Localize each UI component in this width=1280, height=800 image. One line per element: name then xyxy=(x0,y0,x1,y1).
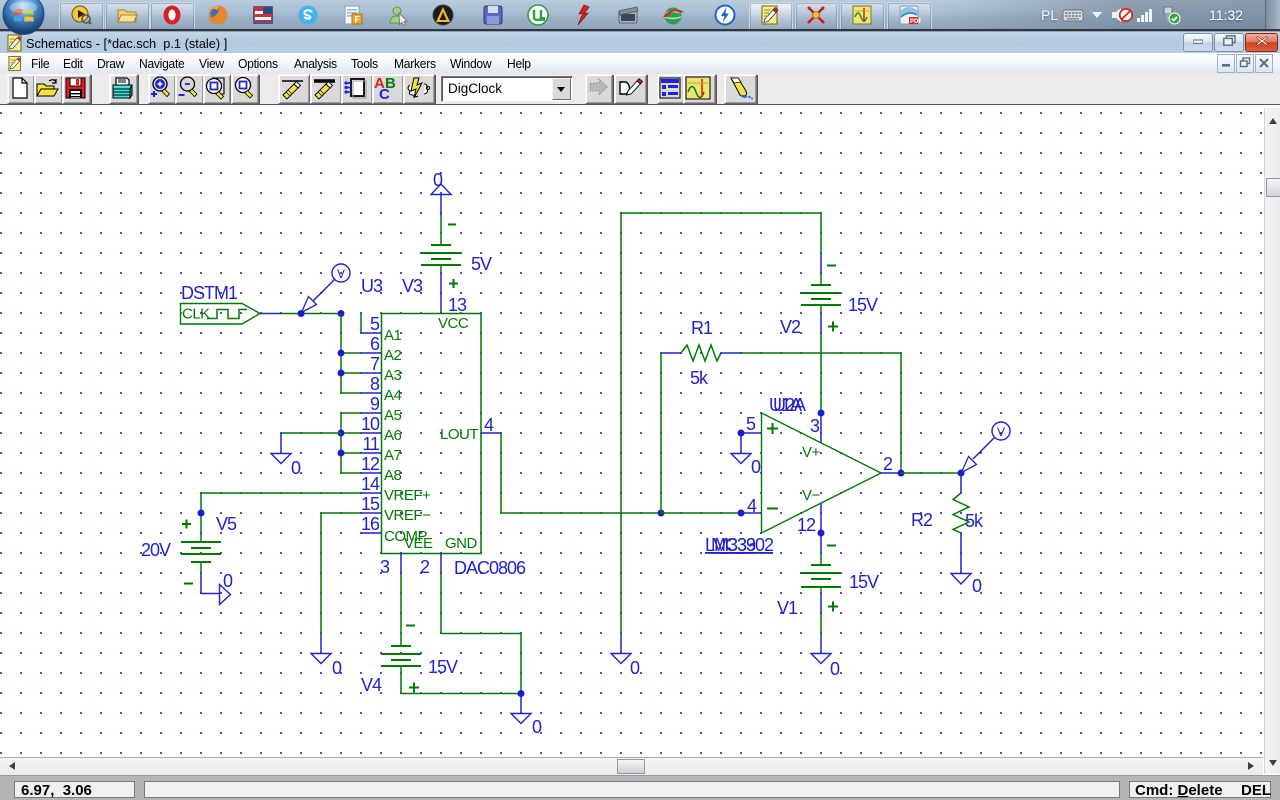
U3 pin 4 stub (LOUT) xyxy=(481,432,501,434)
svg-text:5: 5 xyxy=(370,314,380,334)
svg-text:11: 11 xyxy=(362,434,380,454)
svg-text:A7: A7 xyxy=(384,447,402,464)
junction node plus input xyxy=(738,430,745,437)
ground 0 (V3 minus, rotated 180) xyxy=(431,170,451,216)
svg-text:A6: A6 xyxy=(384,427,402,444)
voltage marker on output xyxy=(962,422,1011,473)
U2A minus input stub (4) xyxy=(741,512,761,514)
wire V2 plus to op-amp V+ xyxy=(820,313,822,333)
svg-text:8: 8 xyxy=(370,374,380,394)
ground 0 (V5 minus, rotated) xyxy=(201,571,233,605)
svg-text:F: F xyxy=(355,15,361,25)
wire to V+ node xyxy=(820,333,822,413)
svg-text:GND: GND xyxy=(445,535,478,552)
U3 pin 6 stub (A2) xyxy=(361,352,381,354)
wire clock net xyxy=(281,313,341,315)
ground 0 (VREF-) xyxy=(311,634,342,678)
svg-text:14: 14 xyxy=(361,474,380,494)
voltage source V4 battery xyxy=(381,626,421,693)
junction node A7 xyxy=(338,450,345,457)
wire GND pin to junction xyxy=(441,573,521,694)
svg-text:0: 0 xyxy=(291,458,301,478)
svg-text:0: 0 xyxy=(332,658,342,678)
U2A V+ pin stub (3) xyxy=(820,413,822,443)
U2A plus input stub (5) xyxy=(741,432,761,434)
svg-text:V5: V5 xyxy=(216,514,237,534)
svg-text:10: 10 xyxy=(361,414,380,434)
wire V2 top loop xyxy=(621,213,821,634)
svg-text:V: V xyxy=(337,267,345,281)
svg-text:4: 4 xyxy=(747,496,757,516)
svg-text:20V: 20V xyxy=(141,540,171,560)
svg-text:V1: V1 xyxy=(777,598,798,618)
svg-text:0: 0 xyxy=(751,457,761,477)
svg-text:VREF−: VREF− xyxy=(384,507,431,524)
svg-text:R1: R1 xyxy=(691,318,713,338)
junction node A6 xyxy=(338,430,345,437)
svg-text:U2A: U2A xyxy=(773,395,806,415)
ground 0 (V4/GND) xyxy=(511,694,542,738)
junction node V+ xyxy=(818,410,825,417)
IC U3 DAC0806 body xyxy=(382,314,482,554)
svg-text:LOUT: LOUT xyxy=(440,426,478,443)
U3 pin 15 stub (VREF-) xyxy=(361,512,381,514)
svg-text:15: 15 xyxy=(361,494,380,514)
svg-text:V3: V3 xyxy=(402,276,423,296)
wire VREF- net xyxy=(321,513,361,634)
svg-text:V−: V− xyxy=(802,487,821,504)
svg-text:VCC: VCC xyxy=(438,315,469,332)
junction node V5 plus xyxy=(198,510,205,517)
junction node V4/GND xyxy=(518,690,525,697)
wire V4 plus to junction xyxy=(401,666,521,694)
wire VCC to V3 xyxy=(440,273,442,293)
junction node V- xyxy=(818,530,825,537)
wire R1 left to inverting node xyxy=(660,353,662,513)
svg-text:C: C xyxy=(379,86,390,101)
svg-text:V4: V4 xyxy=(361,675,382,695)
voltage source V2 battery xyxy=(801,266,841,332)
ground 0 (plus input) xyxy=(731,433,761,477)
svg-text:A5: A5 xyxy=(384,407,402,424)
svg-text:A2: A2 xyxy=(384,347,402,364)
svg-text:V+: V+ xyxy=(802,444,821,461)
svg-text:0: 0 xyxy=(972,576,982,596)
voltage source V1 battery xyxy=(801,546,841,612)
svg-text:A1: A1 xyxy=(384,327,402,344)
svg-text:MC3302: MC3302 xyxy=(711,535,774,555)
svg-text:V2: V2 xyxy=(780,317,801,337)
svg-text:15V: 15V xyxy=(428,657,458,677)
U3 pin 13 stub (VCC) xyxy=(440,293,442,313)
wire to op-amp minus input xyxy=(661,512,741,514)
wire VREF+ net xyxy=(201,493,361,542)
ground 0 (R2) xyxy=(951,574,982,597)
svg-text:0: 0 xyxy=(630,658,640,678)
wire LOUT to inverting input xyxy=(501,433,661,513)
ground 0 (A-bus) xyxy=(271,433,301,478)
svg-text:U3: U3 xyxy=(361,276,383,296)
svg-text:0: 0 xyxy=(532,717,542,737)
U2A V- pin stub (12) xyxy=(820,503,822,533)
wire V2 minus xyxy=(820,253,822,273)
svg-text:R2: R2 xyxy=(911,510,933,530)
U3 pin 12 stub (A8) xyxy=(361,472,381,474)
wire bus to pins A5-A8 xyxy=(341,413,361,473)
digital stimulus DSTM1 symbol xyxy=(181,304,261,325)
junction node R2 top xyxy=(958,470,965,477)
junction node output/R1 xyxy=(898,470,905,477)
svg-text:A4: A4 xyxy=(384,387,402,404)
svg-text:0: 0 xyxy=(830,659,840,679)
DSTM1 output pin stub xyxy=(260,313,281,315)
U3 pin 5 stub (A1) xyxy=(361,332,381,334)
svg-text:5: 5 xyxy=(746,414,756,434)
wire V1 ground stub xyxy=(820,613,822,634)
U3 pin 10 stub (A6) xyxy=(361,432,381,434)
wire A-bus to ground xyxy=(281,432,341,434)
U3 pin 11 stub (A7) xyxy=(361,452,381,454)
svg-text:PDF: PDF xyxy=(910,19,921,25)
wire bus to pins A2-A4 xyxy=(341,314,361,394)
svg-text:9: 9 xyxy=(370,394,380,414)
U3 pin 7 stub (A3) xyxy=(361,372,381,374)
svg-text:A3: A3 xyxy=(384,367,402,384)
svg-text:7: 7 xyxy=(370,354,380,374)
svg-text:CLK: CLK xyxy=(182,306,210,323)
svg-text:15V: 15V xyxy=(848,295,878,315)
svg-text:15V: 15V xyxy=(849,572,879,592)
ground 0 (V1) xyxy=(811,634,840,679)
wire loop to V2 xyxy=(820,213,822,253)
U3 pin 14 stub (VREF+) xyxy=(361,492,381,494)
svg-text:2: 2 xyxy=(883,454,893,474)
voltage source V3 battery xyxy=(421,216,461,288)
resistor R2 xyxy=(953,473,969,573)
svg-text:3: 3 xyxy=(380,557,390,577)
svg-text:A8: A8 xyxy=(384,467,402,484)
voltage source V5 battery xyxy=(181,520,221,584)
junction node op-amp minus xyxy=(738,510,745,517)
svg-text:DAC0806: DAC0806 xyxy=(454,558,526,578)
op-amp U2A body xyxy=(762,413,882,533)
resistor R1 xyxy=(661,345,741,361)
svg-text:DSTM1: DSTM1 xyxy=(181,283,238,303)
svg-text:4: 4 xyxy=(484,415,494,435)
U3 pin 16 stub (COMP) xyxy=(361,532,381,534)
U3 pin 8 stub (A4) xyxy=(361,392,381,394)
wire to pin A1 xyxy=(360,314,362,334)
voltage marker on clock net xyxy=(302,264,351,313)
junction node R1/inverting xyxy=(658,510,665,517)
svg-text:0: 0 xyxy=(223,571,233,591)
U2A output stub (2) xyxy=(881,472,901,474)
wire V1 plus to ground xyxy=(820,593,822,613)
wire VEE to V4 xyxy=(400,573,402,646)
junction node A3 xyxy=(338,370,345,377)
junction node clock/bus xyxy=(338,310,345,317)
U3 pin 2 stub (GND) xyxy=(440,553,442,573)
svg-text:6: 6 xyxy=(370,334,380,354)
junction node clock/marker xyxy=(298,310,305,317)
U3 pin 9 stub (A5) xyxy=(361,412,381,414)
svg-text:5k: 5k xyxy=(965,511,984,531)
svg-text:16: 16 xyxy=(361,514,380,534)
svg-text:2: 2 xyxy=(420,557,430,577)
svg-text:5k: 5k xyxy=(690,368,709,388)
U3 pin labels xyxy=(384,315,478,552)
svg-text:5V: 5V xyxy=(471,254,492,274)
svg-text:VEE: VEE xyxy=(404,535,433,552)
svg-text:V: V xyxy=(997,425,1005,439)
ground 0 (loop) xyxy=(611,634,640,678)
wire output to R2 xyxy=(901,472,961,474)
U3 pin 3 stub (VEE) xyxy=(400,553,402,573)
svg-text:VREF+: VREF+ xyxy=(384,487,431,504)
wire R1 right to output node xyxy=(741,353,901,473)
svg-text:3: 3 xyxy=(810,416,820,436)
svg-text:0: 0 xyxy=(433,170,443,190)
wire V- to V1 xyxy=(820,533,822,553)
svg-text:12: 12 xyxy=(361,454,380,474)
junction node A2 xyxy=(338,350,345,357)
svg-text:12: 12 xyxy=(797,515,816,535)
svg-text:13: 13 xyxy=(448,295,467,315)
